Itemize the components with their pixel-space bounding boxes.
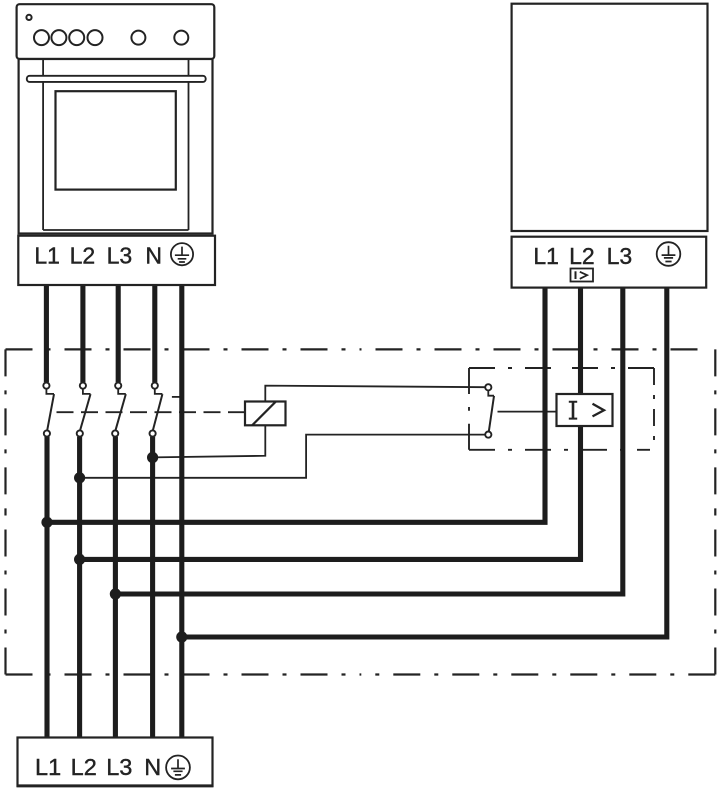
svg-text:L1: L1 bbox=[35, 754, 61, 780]
supply terminal box bbox=[18, 738, 213, 786]
tick on PE wire bbox=[172, 396, 182, 398]
wire L1 cooker drop bbox=[44, 285, 49, 382]
wire L2 cooker drop bbox=[80, 285, 85, 382]
earth symbol cooker bbox=[171, 243, 193, 265]
svg-text:N: N bbox=[145, 243, 162, 269]
cooker knob 2 bbox=[51, 30, 66, 45]
wire: relay coil top lead to aux contact bbox=[265, 386, 485, 402]
wire N lower bbox=[150, 437, 155, 738]
svg-text:L3: L3 bbox=[107, 243, 133, 269]
overcurrent sensor I> box bbox=[557, 394, 613, 426]
cooker knob 6 bbox=[174, 31, 188, 45]
contactor pole 3 bbox=[112, 383, 126, 437]
protection device boundary (inner dashed box) bbox=[469, 368, 654, 450]
wire L2 bus to appliance bbox=[80, 288, 581, 560]
cooker knob 5 bbox=[131, 31, 145, 45]
junction N / coil bbox=[147, 452, 158, 463]
wire L1 lower bbox=[44, 437, 49, 738]
wire PE cooker to supply bbox=[179, 285, 184, 738]
junction PE bus bbox=[176, 631, 187, 642]
contactor pole 1 bbox=[43, 383, 54, 437]
appliance terminal box bbox=[512, 237, 707, 288]
junction L2 / aux return bbox=[74, 472, 85, 483]
mechanical linkage (dashed) through contactor poles bbox=[49, 411, 245, 413]
relay coil K1 bbox=[245, 402, 286, 426]
cooker knob 3 bbox=[69, 30, 84, 45]
aux contact in protection device bbox=[485, 384, 494, 438]
cooker terminal box bbox=[18, 236, 215, 285]
supply terminal box bottom edge bbox=[17, 784, 214, 787]
junction L1 bus bbox=[41, 517, 52, 528]
cooker handle bbox=[27, 76, 206, 82]
cooker control panel bbox=[17, 4, 215, 59]
mini overcurrent marker under L2 bbox=[571, 269, 594, 282]
svg-text:L2: L2 bbox=[70, 243, 96, 269]
contactor pole 2 bbox=[77, 383, 91, 437]
wire: aux contact return to L2 junction bbox=[80, 435, 486, 478]
svg-text:L2: L2 bbox=[569, 243, 595, 269]
wire L3 cooker drop bbox=[116, 285, 121, 382]
wire N cooker drop bbox=[152, 285, 157, 382]
cooker oven window bbox=[56, 91, 176, 189]
cooker knob 1 bbox=[34, 30, 49, 45]
wire: relay coil bottom lead to N junction bbox=[153, 425, 266, 457]
cooker indicator lamp bbox=[26, 15, 31, 20]
svg-text:N: N bbox=[144, 754, 161, 780]
svg-text:L3: L3 bbox=[607, 243, 633, 269]
junction L3 bus bbox=[110, 588, 121, 599]
svg-text:L1: L1 bbox=[34, 243, 60, 269]
cooker door frame bbox=[43, 60, 188, 230]
wire: aux contact trip link to I> sensor bbox=[498, 411, 557, 413]
svg-text:L3: L3 bbox=[106, 754, 132, 780]
earth symbol appliance bbox=[657, 242, 681, 266]
cooker body bbox=[19, 59, 213, 234]
cooker knob 4 bbox=[88, 30, 103, 45]
appliance (water heater) body bbox=[512, 4, 708, 231]
contactor pole 4 bbox=[150, 383, 163, 437]
wire L1 bus to appliance bbox=[47, 288, 545, 523]
junction L2 bus bbox=[74, 554, 85, 565]
wire L3 bus to appliance bbox=[115, 288, 622, 594]
control cabinet boundary (outer dash-dot box) bbox=[6, 349, 716, 674]
wire L2 lower bbox=[77, 437, 82, 738]
earth symbol supply bbox=[166, 756, 190, 780]
wire PE bus to appliance bbox=[182, 288, 667, 637]
wire L3 lower bbox=[113, 437, 118, 738]
svg-text:L1: L1 bbox=[533, 243, 559, 269]
svg-text:L2: L2 bbox=[71, 754, 97, 780]
